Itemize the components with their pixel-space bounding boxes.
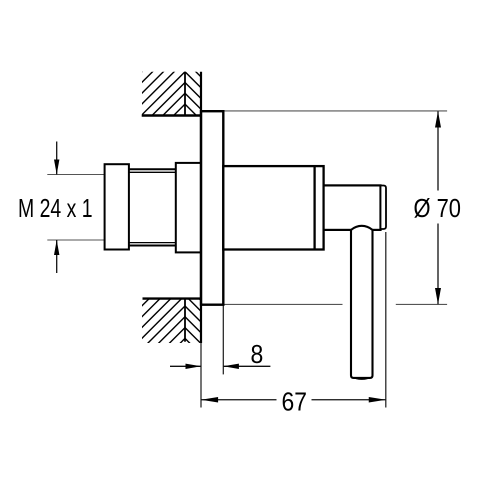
svg-text:Ø 70: Ø 70 (414, 195, 462, 223)
svg-text:8: 8 (251, 341, 264, 369)
svg-text:M 24 x 1: M 24 x 1 (18, 195, 93, 223)
svg-text:67: 67 (282, 388, 308, 416)
